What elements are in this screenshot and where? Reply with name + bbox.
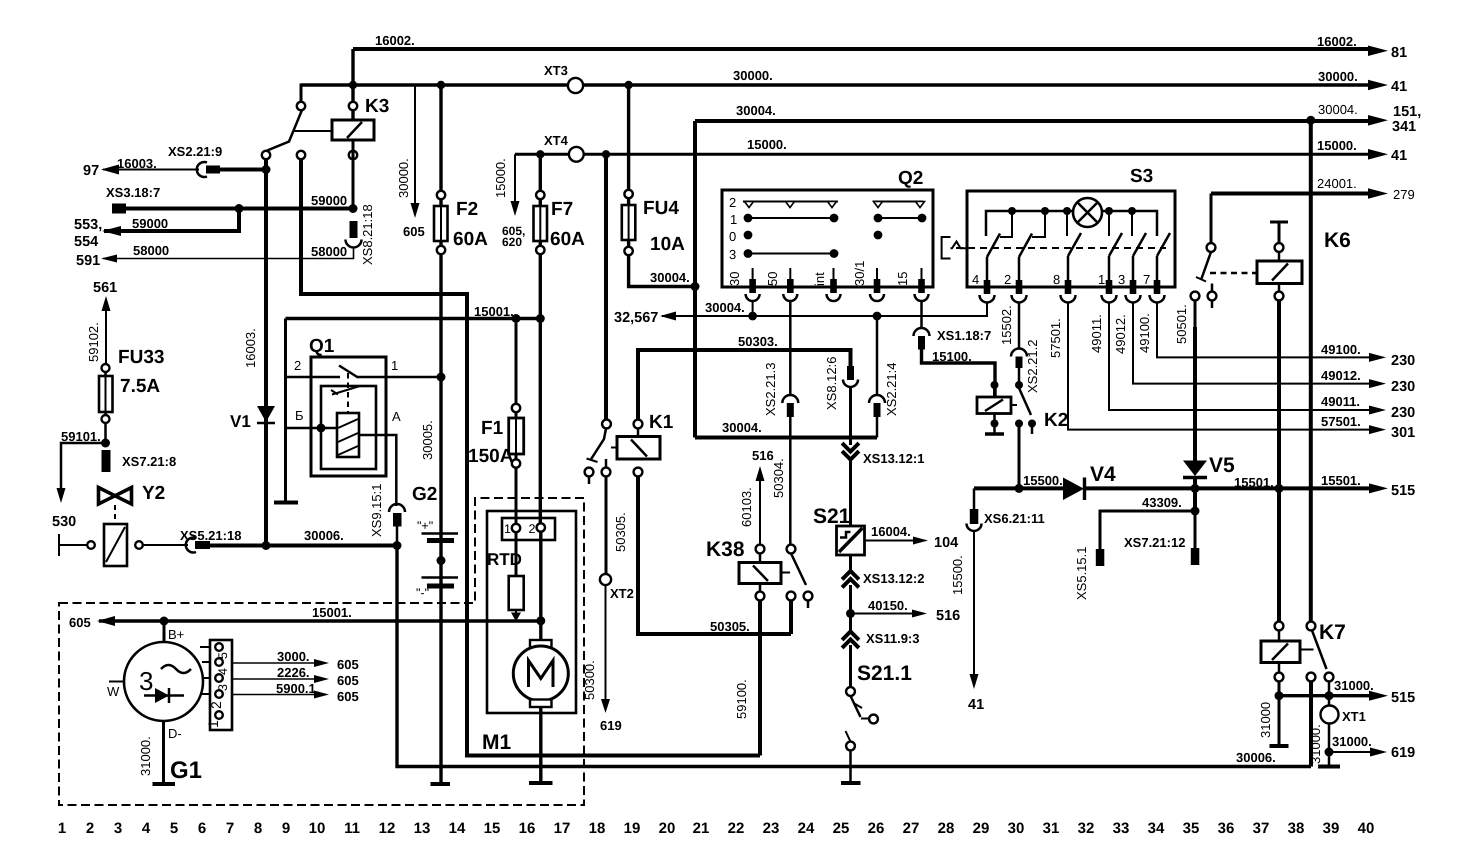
svg-text:7.5A: 7.5A — [120, 376, 160, 397]
wire 30000 tap arrow to 605 — [414, 86, 416, 203]
connector XS5.15.1 pin — [1096, 549, 1105, 566]
wire S3 pin3 to 49012/230 — [1133, 302, 1369, 384]
svg-text:18: 18 — [589, 820, 606, 837]
svg-text:5: 5 — [216, 652, 230, 659]
svg-text:60103.: 60103. — [739, 487, 754, 527]
svg-text:1: 1 — [504, 522, 511, 536]
svg-text:30004.: 30004. — [1318, 102, 1358, 117]
wire 30004 lower bus — [695, 436, 877, 440]
S3 actuator dashed — [956, 247, 1166, 249]
switch Q1 box — [311, 357, 386, 476]
relay K6 switch — [1207, 243, 1216, 252]
wire Q2 pin15 to 15100 — [920, 301, 923, 328]
svg-text:59101.: 59101. — [61, 429, 101, 444]
svg-text:591: 591 — [76, 253, 100, 269]
svg-text:104: 104 — [934, 535, 958, 551]
wire Q2 pin50 to K38 — [789, 301, 792, 396]
relay K2 switch — [1015, 381, 1023, 389]
svg-text:59100.: 59100. — [734, 679, 749, 719]
svg-text:33: 33 — [1113, 820, 1130, 837]
wire 30004 top bus — [695, 119, 1368, 123]
svg-text:XS8.21:18: XS8.21:18 — [360, 204, 375, 265]
svg-text:15500.: 15500. — [950, 555, 965, 595]
svg-text:F7: F7 — [551, 199, 573, 220]
fuse F1 — [512, 404, 520, 412]
svg-text:15500.: 15500. — [1023, 473, 1063, 488]
svg-text:K3: K3 — [365, 96, 389, 117]
svg-text:XS2.21.3: XS2.21.3 — [763, 363, 778, 417]
switch Q1 main contact — [286, 376, 442, 379]
terminal XT2 — [600, 574, 611, 585]
svg-text:2: 2 — [1004, 272, 1011, 287]
light switch S3 — [967, 191, 1175, 287]
svg-text:515: 515 — [1391, 483, 1415, 499]
relay K6 coil — [1270, 222, 1288, 243]
svg-text:605: 605 — [403, 224, 425, 239]
node Q1 term1 junction — [437, 373, 446, 382]
svg-text:26: 26 — [868, 820, 885, 837]
wire 15000 to K1 — [604, 154, 608, 420]
ground motor — [529, 781, 553, 785]
wire S3 pin7 to 49100/230 — [1157, 302, 1369, 357]
svg-text:9: 9 — [282, 820, 290, 837]
svg-text:38: 38 — [1288, 820, 1305, 837]
fuse FU33 — [102, 364, 110, 372]
svg-text:230: 230 — [1391, 405, 1415, 421]
svg-text:59000: 59000 — [311, 193, 347, 208]
svg-text:13: 13 — [414, 820, 431, 837]
svg-text:XT4: XT4 — [544, 133, 569, 148]
svg-text:25: 25 — [833, 820, 850, 837]
wire 619 branch — [1325, 748, 1334, 757]
svg-text:59102.: 59102. — [86, 322, 101, 362]
fuse F2 — [439, 85, 442, 534]
svg-text:16004.: 16004. — [871, 524, 911, 539]
node 16003/97 junction — [262, 165, 271, 174]
svg-text:57501.: 57501. — [1048, 318, 1063, 358]
node 15500 junction — [1015, 484, 1024, 493]
svg-text:Q1: Q1 — [309, 336, 335, 357]
svg-text:14: 14 — [449, 820, 466, 837]
wire 50300 to 619 — [605, 585, 607, 699]
relay K7 switch — [1307, 622, 1316, 631]
svg-text:30006.: 30006. — [304, 528, 344, 543]
svg-text:Б: Б — [295, 408, 304, 423]
svg-text:150A: 150A — [468, 446, 514, 467]
wire 16004 to 104 — [865, 540, 914, 542]
svg-text:12: 12 — [379, 820, 396, 837]
svg-text:30005.: 30005. — [420, 420, 435, 460]
connector XS6.21:11 — [973, 488, 976, 510]
diode V4 — [1063, 478, 1084, 501]
svg-text:22: 22 — [728, 820, 745, 837]
wire S3 pin8 to 57501/301 — [1068, 302, 1369, 430]
svg-text:2: 2 — [529, 522, 536, 536]
svg-text:34: 34 — [1148, 820, 1165, 837]
svg-text:XS13.12:1: XS13.12:1 — [863, 451, 924, 466]
wire 16002 drop to K3 — [351, 49, 354, 120]
svg-text:2226.: 2226. — [277, 665, 310, 680]
node K3 top junction — [349, 81, 357, 89]
svg-text:XS8.12:6: XS8.12:6 — [824, 357, 839, 411]
wire 515 line — [1279, 694, 1369, 697]
svg-text:7: 7 — [226, 820, 234, 837]
svg-text:B+: B+ — [168, 627, 184, 642]
svg-text:41: 41 — [1391, 148, 1407, 164]
svg-text:17: 17 — [554, 820, 571, 837]
svg-text:57501.: 57501. — [1321, 414, 1361, 429]
connector XS13.12:1 chevrons — [844, 445, 858, 460]
wire 59101 to 530 arrow — [61, 443, 106, 488]
svg-text:619: 619 — [1391, 745, 1415, 761]
svg-text:4: 4 — [216, 668, 230, 675]
svg-text:G2: G2 — [412, 484, 437, 505]
switch Q1 inner box — [321, 386, 376, 469]
connector XS1.18:7 — [914, 328, 930, 336]
wire K3 left branch — [301, 85, 353, 102]
svg-text:50305.: 50305. — [613, 512, 628, 552]
wire FU4 to 30004 — [629, 255, 695, 287]
svg-text:50303.: 50303. — [738, 334, 778, 349]
svg-text:30: 30 — [1008, 820, 1025, 837]
svg-text:D-: D- — [168, 726, 182, 741]
wire 30000 bus — [301, 83, 1368, 86]
svg-text:32,567: 32,567 — [614, 310, 658, 326]
svg-text:2: 2 — [729, 195, 736, 210]
node 515 left junction — [1275, 691, 1284, 700]
svg-text:553,: 553, — [74, 217, 102, 233]
svg-text:15502.: 15502. — [999, 305, 1014, 345]
svg-text:XT3: XT3 — [544, 63, 568, 78]
svg-text:3: 3 — [729, 247, 736, 262]
svg-text:K38: K38 — [706, 538, 745, 561]
svg-text:2: 2 — [86, 820, 94, 837]
svg-text:16002.: 16002. — [1317, 34, 1357, 49]
svg-text:2: 2 — [294, 358, 301, 373]
wire 50303 from K1 coil top — [638, 350, 851, 420]
svg-text:7: 7 — [1143, 272, 1150, 287]
svg-text:40150.: 40150. — [868, 598, 908, 613]
svg-text:530: 530 — [52, 514, 76, 530]
svg-text:11: 11 — [344, 820, 360, 837]
node F7/15001 junction — [536, 314, 545, 323]
svg-text:XS9.15:1: XS9.15:1 — [369, 484, 384, 538]
svg-text:58000: 58000 — [311, 244, 347, 259]
svg-text:15001.: 15001. — [312, 605, 352, 620]
ground under Q1 — [274, 501, 298, 505]
wire Q2 pin30/1 to 30004 — [876, 316, 879, 395]
svg-text:15: 15 — [484, 820, 501, 837]
wire 5900.1 output — [232, 694, 314, 696]
svg-text:15000.: 15000. — [1317, 138, 1357, 153]
svg-text:W: W — [107, 684, 120, 699]
connector XS8.21:18 — [350, 221, 358, 238]
svg-text:4: 4 — [972, 272, 979, 287]
svg-text:1: 1 — [730, 212, 737, 227]
wire K6 coil to 15501 and K7 — [1277, 300, 1281, 621]
svg-text:97: 97 — [83, 163, 99, 179]
connector XS9.15:1 — [389, 504, 405, 512]
node motor junction — [536, 616, 545, 625]
svg-text:F1: F1 — [481, 418, 504, 439]
svg-text:32: 32 — [1078, 820, 1095, 837]
svg-text:49011.: 49011. — [1321, 394, 1360, 409]
svg-text:XS5.15.1: XS5.15.1 — [1074, 547, 1089, 601]
relay K38 switch — [787, 545, 796, 554]
svg-text:3000.: 3000. — [277, 649, 310, 664]
svg-text:XS2.21:4: XS2.21:4 — [884, 363, 899, 417]
Q2 row 0 contacts — [744, 231, 753, 240]
relay K3 coil — [332, 120, 374, 140]
wire 561 arrow — [102, 296, 111, 311]
relay K1 coil — [634, 420, 643, 429]
node V5/15501 junction — [1191, 484, 1200, 493]
svg-text:28: 28 — [938, 820, 955, 837]
svg-text:Q2: Q2 — [898, 168, 923, 189]
wire 15500/15501 line — [974, 486, 1063, 490]
svg-text:XS2.21:9: XS2.21:9 — [168, 144, 222, 159]
svg-text:31000.: 31000. — [138, 736, 153, 776]
svg-text:60A: 60A — [453, 229, 488, 250]
wire K3 mid contact to 59100 run — [301, 159, 760, 756]
box M1 solid enclosure — [487, 511, 576, 713]
node K1 feed junction — [602, 150, 610, 158]
node B+ junction — [160, 617, 169, 626]
lamp S3 — [1073, 198, 1102, 227]
wire 24001 — [1211, 192, 1368, 196]
svg-text:XS11.9:3: XS11.9:3 — [866, 631, 920, 646]
svg-text:G1: G1 — [170, 757, 202, 784]
wire K7 contact to 30006 — [1309, 681, 1313, 766]
wire 16002 top bus — [353, 47, 1368, 51]
svg-text:15100.: 15100. — [932, 349, 972, 364]
svg-text:49012.: 49012. — [1113, 314, 1128, 354]
svg-text:"-": "-" — [416, 586, 429, 600]
wire S3 pin2 to K2 (15502) — [1018, 302, 1021, 349]
ground XT1 — [1318, 765, 1340, 769]
wire 59000 — [126, 207, 353, 211]
svg-text:8: 8 — [1053, 272, 1060, 287]
wire K6 actuator dashed — [1210, 272, 1257, 275]
wire 3000. output — [232, 662, 314, 664]
svg-text:XT2: XT2 — [610, 586, 634, 601]
svg-text:60A: 60A — [550, 229, 585, 250]
svg-text:30006.: 30006. — [1236, 750, 1276, 765]
svg-text:50304.: 50304. — [771, 458, 786, 498]
svg-text:43309.: 43309. — [1142, 495, 1182, 510]
svg-text:XS3.18:7: XS3.18:7 — [106, 185, 160, 200]
S3 actuator handle — [942, 237, 951, 259]
Q2 row 1 contacts — [748, 217, 834, 219]
svg-text:31000.: 31000. — [1332, 734, 1372, 749]
svg-text:1: 1 — [1098, 272, 1105, 287]
node 30006 junction — [393, 541, 402, 550]
svg-text:230: 230 — [1391, 379, 1415, 395]
svg-text:29: 29 — [973, 820, 990, 837]
node XT1 top junction — [1325, 691, 1334, 700]
svg-text:FU33: FU33 — [118, 347, 164, 368]
svg-text:K2: K2 — [1044, 410, 1068, 431]
ground K2 — [985, 432, 1004, 435]
terminal XT1 — [1328, 690, 1331, 766]
svg-text:XS5.21:18: XS5.21:18 — [180, 528, 241, 543]
svg-text:4: 4 — [142, 820, 151, 837]
node F7 top — [536, 150, 544, 158]
wire 24001 to K6 switch — [1210, 194, 1213, 244]
S3 contact stubs — [1000, 211, 1132, 237]
svg-text:V5: V5 — [1209, 454, 1235, 477]
node F1 top junction — [512, 314, 521, 323]
svg-text:1: 1 — [391, 358, 398, 373]
svg-text:6: 6 — [198, 820, 206, 837]
svg-text:59000: 59000 — [132, 216, 168, 231]
wire 30004 right drop to K7 — [1309, 120, 1313, 626]
svg-text:23: 23 — [763, 820, 780, 837]
svg-text:20: 20 — [659, 820, 676, 837]
relay K7 coil — [1275, 622, 1284, 631]
svg-text:3: 3 — [114, 820, 122, 837]
relay K2 coil — [991, 381, 999, 389]
wire 15001 upper — [286, 317, 541, 320]
switch Q1 aux contact — [332, 386, 360, 395]
connector XS2.21:4 — [869, 395, 885, 403]
svg-text:605: 605 — [337, 657, 359, 672]
svg-text:58000: 58000 — [133, 243, 169, 258]
svg-text:F2: F2 — [456, 199, 478, 220]
svg-text:10: 10 — [309, 820, 326, 837]
wire G2 to ground — [439, 534, 442, 785]
svg-text:49011.: 49011. — [1089, 314, 1104, 353]
svg-text:41: 41 — [1391, 79, 1407, 95]
wire 43309 — [1100, 511, 1195, 550]
wire S3 pin1 to 49011/230 — [1109, 302, 1369, 410]
svg-text:36: 36 — [1218, 820, 1235, 837]
svg-text:А: А — [392, 409, 401, 424]
terminal XT4 — [569, 147, 584, 162]
svg-text:279: 279 — [1393, 187, 1415, 202]
connector XS8.12:6 — [847, 366, 854, 380]
wire 30006 down and right — [397, 546, 1311, 767]
S3 internal bus — [986, 211, 1157, 236]
connector XS11.9:3 chevrons — [844, 632, 858, 647]
svg-text:K7: K7 — [1319, 621, 1346, 644]
svg-text:19: 19 — [624, 820, 641, 837]
svg-text:24001.: 24001. — [1317, 176, 1357, 191]
svg-text:XS7.21:8: XS7.21:8 — [122, 454, 176, 469]
svg-text:39: 39 — [1323, 820, 1340, 837]
fuse FU4 — [627, 85, 630, 250]
wire 30004 thin rail (32,567) — [662, 302, 987, 316]
connector block G1 — [200, 647, 210, 694]
svg-text:15501.: 15501. — [1321, 473, 1361, 488]
ground G1 — [153, 782, 176, 786]
switch S21 box — [837, 526, 865, 555]
svg-text:605: 605 — [69, 615, 91, 630]
svg-text:30/1: 30/1 — [852, 261, 867, 286]
wire motor feed — [539, 532, 542, 642]
svg-text:"+": "+" — [417, 519, 433, 533]
S3 switch arms — [987, 233, 1170, 257]
svg-text:515: 515 — [1391, 690, 1415, 706]
svg-text:S21.1: S21.1 — [857, 662, 912, 685]
node K6/15501 junction — [1275, 484, 1284, 493]
relay K1 switch — [602, 420, 611, 429]
svg-text:341: 341 — [1392, 119, 1416, 135]
relay K38 coil — [756, 545, 765, 554]
svg-text:1: 1 — [58, 820, 66, 837]
bottom column numbers — [58, 820, 1375, 837]
svg-text:31000: 31000 — [1258, 702, 1273, 738]
svg-text:XS6.21:11: XS6.21:11 — [984, 511, 1045, 526]
svg-text:15001.: 15001. — [474, 304, 514, 319]
svg-text:3: 3 — [139, 666, 153, 696]
svg-text:FU4: FU4 — [643, 198, 679, 219]
wire 50305 from K1 coil bottom — [638, 476, 791, 634]
terminal block M1 pins 1,2 — [502, 518, 555, 540]
svg-text:0: 0 — [729, 229, 736, 244]
wire 58000 to 591 — [103, 248, 354, 259]
wire 15100 to K2 — [922, 349, 996, 397]
relay K3 switch arm — [266, 110, 302, 151]
node pin30 junction — [748, 312, 757, 321]
wire 2226. output — [232, 678, 314, 680]
svg-text:2: 2 — [208, 701, 224, 709]
svg-text:21: 21 — [693, 820, 710, 837]
svg-text:554: 554 — [74, 234, 98, 250]
svg-text:27: 27 — [903, 820, 920, 837]
wire 59000 branch to 553,554 — [104, 209, 239, 232]
connector XS2.21.3 — [782, 395, 798, 403]
svg-text:37: 37 — [1253, 820, 1270, 837]
wire K3 arm link — [293, 130, 332, 132]
node FU4 top — [624, 81, 632, 89]
wire K2 to 15500 — [1018, 424, 1021, 488]
coil Q1 — [337, 413, 359, 457]
svg-text:30000.: 30000. — [1318, 69, 1358, 84]
node pin30/1 junction — [873, 312, 882, 321]
node 43309 junction — [1191, 507, 1200, 516]
svg-text:619: 619 — [600, 718, 622, 733]
Q2 row 2 contacts — [743, 201, 838, 203]
svg-text:XS7.21:12: XS7.21:12 — [1124, 535, 1185, 550]
terminal XT3 — [568, 78, 583, 93]
wire 15001 lower — [99, 619, 541, 622]
svg-text:5: 5 — [170, 820, 178, 837]
svg-text:5900.1: 5900.1 — [276, 681, 316, 696]
svg-text:16003.: 16003. — [243, 328, 258, 368]
svg-text:31: 31 — [1043, 820, 1060, 837]
svg-text:K6: K6 — [1324, 229, 1351, 252]
node 30004/FU4 junction — [691, 282, 700, 291]
svg-text:50501.: 50501. — [1174, 304, 1189, 344]
svg-text:10A: 10A — [650, 234, 685, 255]
svg-text:XT1: XT1 — [1342, 709, 1366, 724]
node 30004 right junction — [1306, 116, 1315, 125]
wire 30006 left — [210, 544, 397, 548]
svg-text:41: 41 — [968, 697, 984, 713]
svg-text:605: 605 — [337, 689, 359, 704]
svg-text:31000.: 31000. — [1308, 724, 1323, 764]
svg-text:16002.: 16002. — [375, 33, 415, 48]
wire 97/16003 arrow line — [103, 169, 199, 171]
svg-text:15501.: 15501. — [1234, 475, 1274, 490]
svg-text:50300.: 50300. — [582, 660, 597, 700]
svg-text:31000.: 31000. — [1334, 678, 1374, 693]
wire 15000 tap arrow to 605,620 — [514, 154, 516, 201]
wire 16003 vertical from XS2.21:9 to 30006 — [264, 159, 268, 546]
node F2 top — [437, 81, 445, 89]
svg-text:605: 605 — [337, 673, 359, 688]
